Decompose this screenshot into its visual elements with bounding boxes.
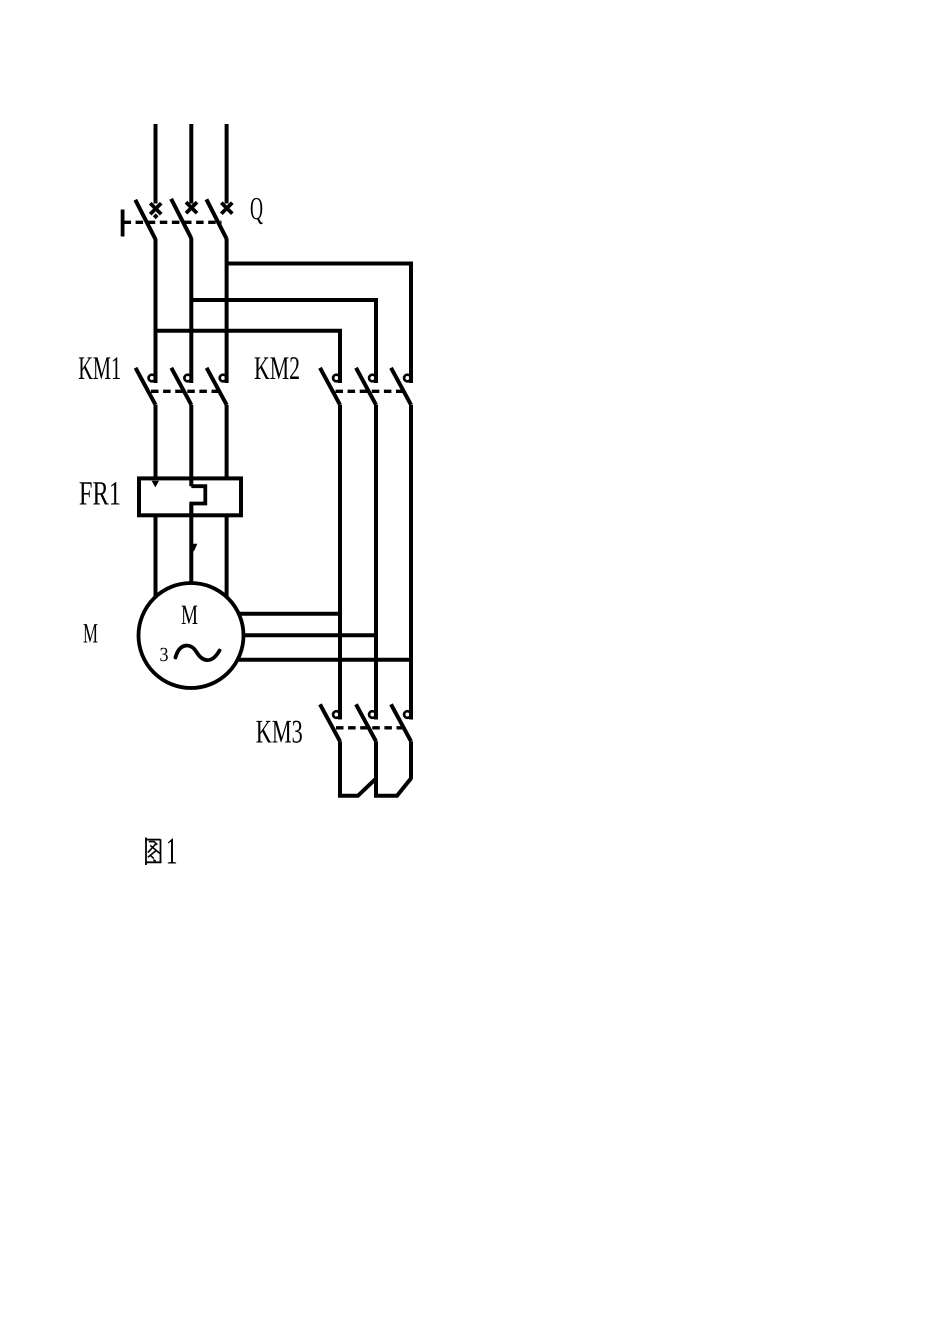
contactor KM1 pole 2 blade [171,368,191,405]
switch Q pole 2 contact cross [186,202,197,213]
wire motor to column 3 horizontal [238,658,411,662]
wire FR1 to motor phase 3 [225,515,229,597]
svg-text:3: 3 [160,644,169,666]
motor M circle [139,583,244,688]
wire phase 2 from Q to KM1 [189,238,193,383]
contactor KM3 pole 3 fixed contact circle [404,711,411,718]
motor sine wave symbol [176,646,220,661]
wire KM1 pole 1 to FR1 [154,405,158,480]
svg-text:KM2: KM2 [254,351,300,387]
wire KM2 pole 1 down to KM3 [338,405,342,720]
contactor KM1 linkage dashed line [151,390,220,393]
contactor KM2 pole 2 blade [356,368,376,405]
wire motor to column 2 horizontal [244,633,377,637]
switch Q pole 3 blade [206,199,226,239]
switch Q pole 2 blade [171,199,191,239]
wire KM2 pole 2 down to KM3 [374,405,378,720]
wire tap L1 to KM2 pole 1 horizontal [156,331,341,383]
wire KM3 pole 3 bottom stub [409,741,413,779]
switch Q pole 1 blade [135,200,155,240]
contactor KM3 pole 1 fixed contact circle [333,711,340,718]
contactor KM3 pole 3 blade [391,704,411,741]
wire FR1 to motor phase 1 [154,515,158,597]
wire KM1 pole 2 to FR1 [189,405,193,486]
switch Q operating bar [121,210,125,237]
switch Q pole 1 contact cross [150,203,161,214]
wire supply L3 [225,124,229,204]
wire KM2 pole 3 down to KM3 [409,405,413,720]
svg-text:M: M [83,619,98,650]
contactor KM3 pole 1 blade [320,704,340,741]
contactor KM2 pole 1 blade [320,368,340,405]
contactor KM1 pole 3 fixed contact circle [220,375,227,382]
svg-text:FR1: FR1 [79,476,121,513]
wire phase 1 from Q to KM1 [154,239,158,383]
switch Q pole 1 arrow artifact [153,213,159,219]
svg-text:M: M [181,600,198,631]
wire KM3 pole 1 shorting link [340,741,376,796]
wire KM1 pole 3 to FR1 [225,405,229,480]
contactor KM3 pole 2 fixed contact circle [369,711,376,718]
contactor KM3 linkage dashed line [336,726,406,729]
arrow artifact on line 1 in FR1 [152,481,159,488]
contactor KM2 pole 2 fixed contact circle [369,375,376,382]
caption character tu (figure) [145,838,161,866]
wire tap L3 to KM2 pole 3 horizontal [227,264,411,384]
thermal relay FR1 box [139,478,241,515]
wire FR1 to motor phase 2 [189,504,193,584]
contactor KM3 pole 2 blade [356,704,376,741]
contactor KM2 linkage dashed line [336,390,405,393]
wire motor to column 1 horizontal [239,612,340,616]
wire supply L2 [189,124,193,204]
svg-text:KM3: KM3 [256,715,303,751]
wire tap L2 to KM2 pole 2 horizontal [191,300,376,383]
switch Q pole 3 contact cross [221,203,232,214]
svg-text:KM1: KM1 [78,351,121,387]
arrow artifact on line 2 below FR1 [190,544,197,552]
contactor KM2 pole 3 blade [391,368,411,405]
thermal relay FR1 heater notch [191,486,205,517]
contactor KM1 pole 1 blade [136,368,156,405]
switch Q linkage dashed line [124,221,222,224]
contactor KM2 pole 1 fixed contact circle [333,375,340,382]
svg-text:Q: Q [250,190,263,226]
wire KM3 pole 2 shorting link [376,741,411,796]
svg-text:1: 1 [166,831,178,873]
contactor KM1 pole 2 fixed contact circle [184,375,191,382]
wire phase 3 from Q to KM1 [225,239,229,384]
contactor KM2 pole 3 fixed contact circle [404,375,411,382]
wire supply L1 [154,124,158,204]
contactor KM1 pole 3 blade [207,368,227,405]
contactor KM1 pole 1 fixed contact circle [149,375,156,382]
